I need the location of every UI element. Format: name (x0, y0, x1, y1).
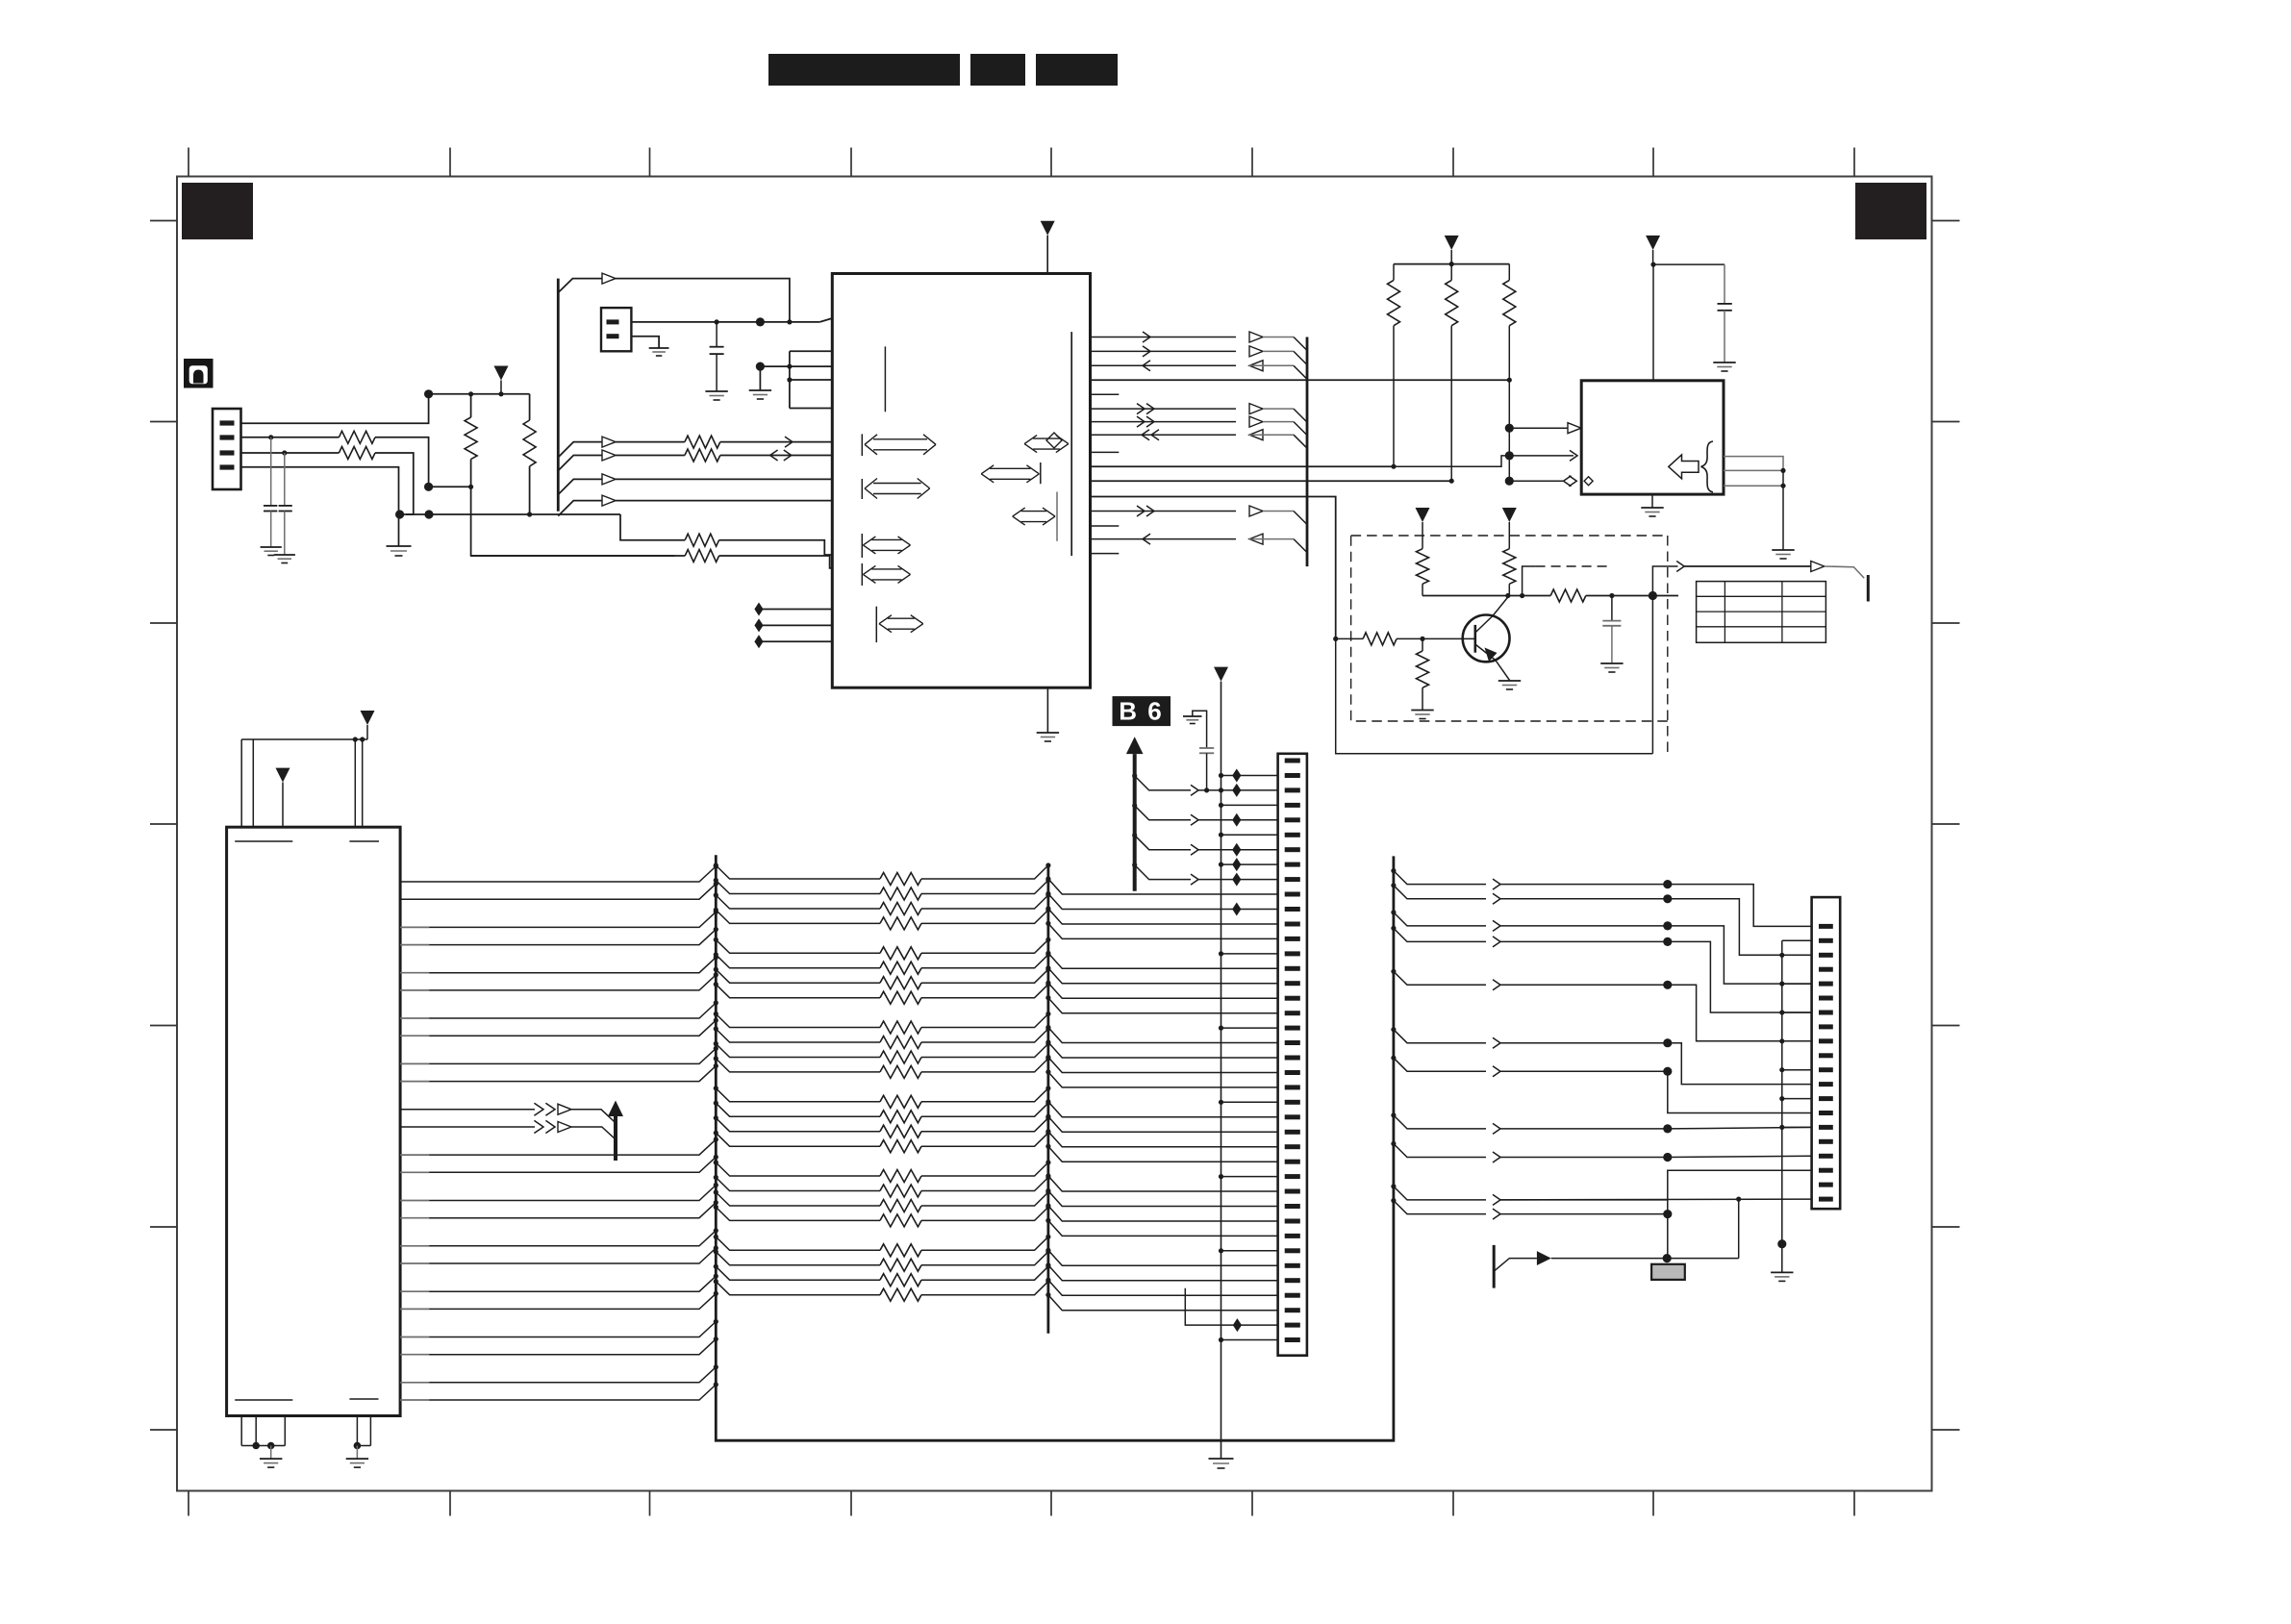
wire strap row 1 with diamond (754, 603, 763, 616)
resistor R36 (series array) (880, 1185, 921, 1197)
wire bus row 10 right segment (921, 1029, 1048, 1042)
wire bus row 6 right segment (921, 955, 1048, 968)
wire bus row 5 left segment (716, 939, 880, 953)
wire B6 arrow branch to J4 pin 7 (1132, 833, 1137, 837)
wire bus row 13 right segment (921, 1088, 1048, 1102)
wire bus row 17 right segment (921, 1162, 1048, 1176)
node bus entry 10 (714, 1063, 718, 1068)
resistor R4 (series, data+) (339, 447, 375, 460)
svg-text:B 6: B 6 (1119, 697, 1163, 726)
ground below Q1 emitter (1498, 680, 1521, 682)
wire bus row 8 left segment (716, 985, 880, 998)
resistor R23 (series array) (880, 947, 921, 960)
wire J5 pin 18 from output node (1668, 1170, 1812, 1258)
node U2 in2 (1505, 451, 1514, 460)
wire bus row 4 left segment (716, 910, 880, 923)
wire to J4 pin 23 (1048, 1072, 1278, 1087)
node corner dot (1520, 593, 1524, 598)
wire gnd rail to J5 pin 11 (1779, 1067, 1784, 1072)
wire bus row 15 right segment (921, 1118, 1048, 1132)
node J3 gnd dots left (252, 1442, 260, 1450)
diamond marker row 2 (1232, 769, 1241, 783)
wire J3 pin row 4 to main bus (400, 944, 429, 946)
Q1 emitter arrow (1485, 648, 1498, 662)
diamond marker row 7 (1232, 843, 1241, 857)
node bus exit 13 (714, 1086, 718, 1090)
U1 pin stub 5 (1091, 393, 1120, 395)
node D3 dot (424, 510, 433, 518)
node tuner junction (1663, 1254, 1672, 1262)
wire R5 to IC with arrow (720, 441, 833, 443)
wire U1 out row 6 (1091, 408, 1237, 410)
wire B6 rail to J4 pin 19 (1219, 1026, 1223, 1031)
wire J3 pin row 7 to main bus (400, 1017, 429, 1019)
wire pull-up rail (1394, 263, 1509, 265)
wire J3 debug row 2 with arrows (400, 1126, 535, 1128)
wire gnd rail to J5 pin 3 (1779, 953, 1784, 958)
wire R1 net down (471, 487, 675, 556)
resistor R27 (series array) (880, 1021, 921, 1034)
node bus exit 11 (714, 1041, 718, 1046)
wire main bus exit 4 to J5 area (1391, 926, 1396, 931)
wire off-page to tuner node (1494, 1259, 1537, 1272)
wire TX row from bus (558, 456, 602, 471)
wire main bus exit 7 to J5 area (1391, 1056, 1396, 1061)
wire staircase to J5 pin 3 (1668, 899, 1812, 956)
wire U1 out row 7 (1091, 421, 1237, 423)
ground below bias node (749, 389, 771, 391)
wire J3 pin row 14 to main bus (400, 1171, 429, 1173)
wire J3 debug row 1 with arrows (400, 1109, 535, 1111)
ground below R18 (1411, 710, 1433, 712)
node bus exit 16 (714, 1131, 718, 1136)
U1 internal arrow 3 (861, 534, 863, 558)
wire to J4 pin 33 (1048, 1220, 1278, 1236)
wire bus row 8 right segment (921, 985, 1048, 998)
node bus entry 20 (714, 1291, 718, 1296)
wire jog into IC (819, 318, 832, 322)
ground rail J5 even pins (1781, 940, 1783, 1272)
wire J3 pin row 21 to main bus (400, 1337, 429, 1338)
wire main bus exit 2 to J5 area (1391, 883, 1396, 887)
wire gnd stem left (270, 1446, 272, 1460)
node D2 dot (424, 483, 433, 491)
bus line (U-shaped main bus) (716, 855, 1394, 1440)
wire to J4 pin 30 (1048, 1176, 1278, 1191)
diamond marker mid connector (1232, 903, 1241, 916)
wire U1 in row 3 (1091, 364, 1237, 366)
capacitor C6 with ground (1193, 711, 1207, 748)
wire to J4 pin 28 (1048, 1146, 1278, 1162)
node output column dot10 (1663, 1210, 1672, 1218)
capacitor C3 (716, 322, 718, 347)
U1 internal arrow right 1 (1024, 436, 1037, 444)
wire B6 arrow branch to J4 pin 3 (1132, 773, 1137, 778)
bus line (USB section) (557, 279, 560, 512)
wire U2 VDD rail (1653, 263, 1725, 265)
wire to J4 pin 36 (1048, 1265, 1278, 1281)
wire ctrl row 1 from bus (558, 479, 602, 494)
wire gnd rail to J5 pin 15 (1779, 1125, 1784, 1130)
node bus entry 4 (714, 927, 718, 932)
resistor R14 (collector pull-up A) (1417, 549, 1429, 585)
node bus entry 22 (714, 1337, 718, 1341)
resistor R6 (series) (685, 449, 720, 462)
wire to J4 pin 16 (1048, 968, 1278, 984)
wire B6 rail to J4 pin 34 (1219, 1248, 1223, 1253)
wire to J4 pin 21 (1048, 1042, 1278, 1058)
wire J3 top rail (241, 738, 367, 740)
junction R1 top (468, 391, 473, 396)
wire staircase to J5 pin 9 (1668, 985, 1812, 1041)
resistor R37 (series array) (880, 1200, 921, 1212)
node bus exit 2 (714, 878, 718, 883)
wire Q1 collector (1475, 597, 1508, 633)
wire U1 row 12 (to Q1 base) (1091, 497, 1336, 639)
wire to J4 pin 11 (1048, 894, 1278, 910)
node bus exit 14 (714, 1101, 718, 1106)
off-page terminal bar bottom (1493, 1245, 1496, 1288)
power symbol J3 aux (276, 768, 290, 783)
junction triangle stub (498, 391, 503, 396)
resistor R13 (pull-up) (1508, 264, 1510, 281)
wire D3 row to R2 bottom (406, 513, 530, 515)
wire to J4 pin 35 (1048, 1250, 1278, 1265)
node bus exit 17 (714, 1160, 718, 1164)
wire bus row 20 right segment (921, 1207, 1048, 1220)
wire R16 to output node (1586, 595, 1678, 597)
wire to J4 pin 17 (1048, 983, 1278, 998)
wire row10 up-jog (1394, 456, 1509, 466)
node collector dot (1505, 593, 1510, 598)
capacitor C2 (284, 453, 286, 506)
node bus entry 17 (714, 1228, 718, 1233)
wire J3 pin row 20 to main bus (400, 1308, 429, 1310)
resistor R1 (pull-up) (470, 394, 472, 417)
diamond marker row 3 (1232, 784, 1241, 797)
wire to J4 pin 22 (1048, 1058, 1278, 1073)
resistor R20 (series array) (880, 887, 921, 900)
resistor R8 (series) (685, 550, 718, 562)
resistor R29 (series array) (880, 1051, 921, 1063)
off-page terminal bar (1867, 575, 1870, 602)
node U2 in3 (1505, 477, 1514, 486)
wire B6 rail to J4 pin 8 (1221, 863, 1278, 865)
ground below U1 (1037, 732, 1059, 734)
U1 pin stub 16 (1091, 553, 1120, 555)
wire staircase to J5 pin 7 (1668, 941, 1812, 1012)
wire to J4 pin 27 (1048, 1132, 1278, 1147)
wire to J4 pin 37 (1048, 1280, 1278, 1295)
ground below J2 (649, 347, 669, 349)
connector J4 (board-to-board, 40-pin) (1278, 754, 1307, 1356)
resistor R41 (series array) (880, 1274, 921, 1287)
bus line (right of U1) (1306, 337, 1309, 567)
wire B6 arrow branch to J4 pin 5 (1132, 803, 1137, 808)
U1 pin stub 14 (1091, 525, 1120, 527)
wire main bus exit 5 to J5 area (1391, 969, 1396, 974)
wire RX row from bus (558, 442, 602, 458)
wire bus row 1 left segment (716, 865, 880, 879)
resistor R38 (series array) (880, 1214, 921, 1227)
wire U2 input 1 (1509, 427, 1568, 429)
wire Q1 base return loop (1336, 638, 1653, 753)
node bus exit 22 (714, 1249, 718, 1254)
wire +5V rail (429, 393, 530, 395)
wire U1 ground pin (1046, 687, 1048, 733)
wire U1 out row 1 (1091, 337, 1237, 338)
wire gnd rail to J5 pin 5 (1779, 982, 1784, 987)
wire bus row 19 right segment (921, 1192, 1048, 1206)
wire J3 bottom left pins (240, 1416, 242, 1446)
wire net to IC (low row) (530, 513, 620, 515)
node bus exit 19 (714, 1189, 718, 1194)
power symbol RA (1416, 508, 1430, 522)
wire bus row 10 left segment (716, 1029, 880, 1042)
wire U2 outs to ground (1782, 470, 1784, 550)
node bus exit 4 (714, 908, 718, 912)
wire J3 bottom right pins (356, 1416, 358, 1446)
wire J3 pin row 8 to main bus (400, 1035, 429, 1037)
wire bus row 9 left segment (716, 1014, 880, 1028)
ground below B6 rail (1209, 1458, 1234, 1460)
node bus entry 5 (714, 955, 718, 960)
resistor R39 (series array) (880, 1244, 921, 1257)
node bus exit 21 (714, 1235, 718, 1239)
wire J3 pin row 9 to main bus (400, 1062, 429, 1064)
diamond marker row 8 (1232, 858, 1241, 871)
wire pin2 through R3 (241, 437, 340, 438)
resistor R19 (series array) (880, 873, 921, 886)
wire bus row 2 left segment (716, 881, 880, 894)
node bus exit 12 (714, 1056, 718, 1061)
wire bus row 9 right segment (921, 1014, 1048, 1028)
wire bus row 20 left segment (716, 1207, 880, 1220)
ground below J3 right (346, 1458, 368, 1460)
power symbol +5V (500, 381, 502, 394)
ground below J5 rail (1771, 1271, 1793, 1273)
resistor R31 (series array) (880, 1095, 921, 1108)
wire strap row 3 with diamond (754, 635, 763, 648)
U1 internal arrow 5 (875, 607, 877, 642)
wire staircase to J5 pin 5 (1668, 926, 1812, 984)
wire Q1 emitter (1475, 644, 1510, 681)
wire B6 rail to J4 pin 14 (1219, 951, 1223, 956)
off-page arrow up (debug) (614, 1116, 617, 1162)
wire to J4 pin 20 (1048, 1028, 1278, 1043)
wire J3 pin row 13 to main bus (400, 1154, 429, 1156)
wire bus row 12 right segment (921, 1059, 1048, 1072)
U1 internal bar top-left (884, 346, 886, 412)
node bus exit 8 (714, 982, 718, 987)
junction C2 tap (282, 450, 287, 455)
node bus entry 18 (714, 1245, 718, 1250)
junction R2 bottom (527, 512, 532, 516)
U1 pin stub 9 (1091, 451, 1120, 453)
connector J5 (ribbon, 20-pin) (1812, 897, 1841, 1209)
wire J3 pin row 2 to main bus (400, 884, 716, 899)
component X1 (crystal, gray) (1651, 1264, 1685, 1280)
wire top row to IC pin ladder (558, 279, 602, 293)
signal table (1697, 582, 1826, 643)
wire U1 row 10 (to R9) (1091, 465, 1395, 467)
wire to J4 pin 13 (1048, 923, 1278, 938)
wire to J5 pin 20 via riser (1500, 1198, 1812, 1201)
junction R1 bottom (468, 485, 473, 489)
wire main bus exit 8 to J5 area (1391, 1112, 1396, 1117)
wire bus row 23 left segment (716, 1266, 880, 1280)
wire to J4 pin 12 (1048, 909, 1278, 924)
U2 internal brace (1701, 441, 1714, 492)
resistor R34 (series array) (880, 1140, 921, 1153)
resistor R11 (pull-up) (1393, 264, 1395, 281)
U1 internal arrow right 3 (1013, 508, 1025, 516)
junction B6 rail crossing chevron rows (1219, 787, 1223, 792)
analog diamond marker U1 right (1046, 433, 1062, 448)
bus line (middle) (1047, 867, 1050, 1334)
resistor R26 (series array) (880, 991, 921, 1004)
diamond marker row 9 (1232, 873, 1241, 887)
wire U2 input 2 (1509, 455, 1573, 457)
U1 internal arrow right 2 (981, 465, 994, 474)
node bus entry 3 (714, 910, 718, 914)
resistor R28 (series array) (880, 1037, 921, 1049)
ground below C1 (261, 546, 282, 548)
resistor R3 (series, data-) (339, 431, 375, 443)
node U2 out junction 1 (1780, 468, 1785, 473)
wire gnd rail to J5 pin 13 (1779, 1096, 1784, 1101)
wire U1 row 4 (to pull-ups) (1091, 379, 1510, 381)
wire J3 pin row 22 to main bus (400, 1354, 429, 1356)
ground below C5 (1600, 662, 1623, 664)
ground below U2 outputs (1772, 549, 1794, 551)
wire bus row 4 right segment (921, 910, 1048, 923)
power symbol J3 main (361, 711, 375, 725)
U1 internal arrow 1 (861, 434, 863, 456)
wire U1 row 11 (to R10) (1091, 480, 1452, 482)
node bus exit 9 (714, 1012, 718, 1016)
wire to J4 pin 25 (1048, 1102, 1278, 1117)
node bus exit 3 (714, 892, 718, 897)
wire low row 1 to IC (620, 514, 685, 540)
wire to J4 pin 10 (1048, 879, 1278, 894)
IC U2 (1581, 381, 1724, 494)
resistor R40 (series array) (880, 1259, 921, 1271)
wire bus row 21 left segment (716, 1237, 880, 1250)
wire bus row 24 left segment (716, 1282, 880, 1295)
node bus entry 8 (714, 1018, 718, 1023)
wire U1 out row 13 (1091, 511, 1237, 512)
wire B6 rail to J4 pin 29 (1219, 1174, 1223, 1179)
wire ladder rung 2 (790, 379, 832, 381)
wire bus row 22 left segment (716, 1252, 880, 1265)
wire strap row 2 with diamond (754, 618, 763, 632)
wire main bus exit 6 to J5 area (1391, 1027, 1396, 1032)
node bus exit 23 (714, 1264, 718, 1269)
wire bias stub (759, 366, 761, 390)
node J3 gnd dot right (354, 1442, 362, 1450)
wire bus row 18 left segment (716, 1178, 880, 1191)
USB port icon (184, 359, 214, 388)
wire gnd stem right (356, 1446, 358, 1460)
wire collector node row (1422, 595, 1550, 597)
ground below D4 (387, 545, 412, 547)
node bus exit 10 (714, 1026, 718, 1031)
ground below C3 (705, 390, 727, 392)
resistor R42 (series array) (880, 1288, 921, 1301)
wire bus row 24 right segment (921, 1282, 1048, 1295)
wire main bus exit 9 to J5 area (1391, 1141, 1396, 1146)
power symbol U1 VDD (1041, 221, 1055, 236)
wire low row 2 to IC (471, 555, 685, 557)
wire D2 to R1 bottom (429, 486, 471, 487)
wire R3 to node D2 (375, 437, 429, 487)
node bus exit 18 (714, 1175, 718, 1180)
resistor R17 (base series) (1336, 637, 1363, 639)
node U2 out junction 2 (1780, 484, 1785, 488)
node bus exit 5 (714, 937, 718, 942)
connector J1 (USB input, 4-pin) (213, 409, 241, 489)
resistor R15 (collector pull-up B) (1503, 549, 1516, 585)
wire U1 in row 8 (1091, 434, 1237, 436)
node rail dots (353, 737, 358, 741)
node bus entry 1 (714, 863, 718, 868)
wire ladder rung 1 (760, 365, 832, 367)
wire output column to dashed corner (1652, 566, 1677, 596)
U1 internal bus bar right (1070, 332, 1072, 556)
resistor R30 (series array) (880, 1065, 921, 1078)
wire main bus exit 10 to J5 area (1391, 1184, 1396, 1188)
junction ladder column (787, 319, 792, 324)
wire bus row 7 left segment (716, 969, 880, 983)
wire bus row 5 right segment (921, 939, 1048, 953)
wire staircase to J5 pin 1 (1668, 885, 1812, 927)
node U2 in1 (1505, 424, 1514, 433)
power symbol U2 VDD (1646, 236, 1660, 250)
node gnd rail dot (1777, 1239, 1786, 1248)
wire bus row 12 left segment (716, 1059, 880, 1072)
wire corner up to dashed stub (1523, 566, 1536, 596)
node bus entry 15 (714, 1183, 718, 1187)
wire J3 pin row 16 to main bus (400, 1217, 429, 1219)
resistor R12 (pull-up) (1450, 264, 1452, 281)
wire J3 pin row 23 to main bus (400, 1382, 429, 1384)
wire connector bottom row 38 (1185, 1288, 1277, 1325)
wire bus row 2 right segment (921, 881, 1048, 894)
wire R6 to IC with double arrow (720, 455, 833, 457)
resistor R5 (series) (685, 436, 720, 448)
wire bus row 6 left segment (716, 955, 880, 968)
wire staircase to J5 pin 14 (1668, 1071, 1812, 1112)
ground below U2 (1641, 507, 1663, 509)
node bus exit 1 (714, 862, 718, 867)
wire gnd rail to J5 pin 9 (1779, 1038, 1784, 1043)
wire pin4 to ground node (241, 467, 399, 514)
wire bus row 22 right segment (921, 1252, 1048, 1265)
wire bus row 3 right segment (921, 895, 1048, 909)
diamond marker row 5 (1232, 813, 1241, 827)
resistor R24 (series array) (880, 962, 921, 974)
off-page arrow up B6 (1133, 754, 1137, 891)
wire J3 pin row 19 to main bus (400, 1290, 429, 1292)
wire bus row 23 right segment (921, 1266, 1048, 1280)
node bus entry 16 (714, 1200, 718, 1205)
wire bus row 14 left segment (716, 1103, 880, 1116)
node bias dot (756, 362, 765, 371)
wire ground stub D4 (398, 514, 400, 546)
wire staircase to J5 pin 12 (1668, 1043, 1812, 1085)
wire bus row 16 right segment (921, 1133, 1048, 1146)
